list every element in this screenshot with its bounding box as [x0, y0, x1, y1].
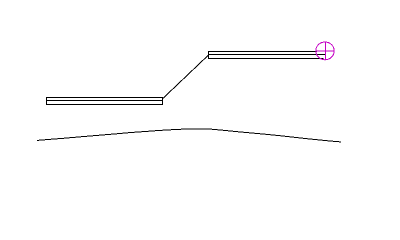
- lower beam (double-line bar): [46, 97, 163, 105]
- node marker: cross vertical: [324, 41, 326, 60]
- node marker: magenta circle: [316, 42, 334, 60]
- upper beam (double-line bar): [208, 51, 326, 59]
- ground surface polyline: [37, 129, 341, 142]
- wire: lower bar left edge: [46, 97, 48, 105]
- wire: lower bar bottom line: [46, 104, 163, 106]
- wire: lower bar top line: [46, 97, 163, 99]
- wire: diagonal connector between bars: [163, 55, 209, 98]
- wire: lower bar inner line: [46, 100, 163, 102]
- wire: upper bar top line: [208, 51, 317, 53]
- wire: lower bar right edge: [162, 97, 164, 105]
- wire: upper bar left edge: [208, 51, 210, 59]
- wire: upper bar bottom line: [208, 58, 324, 60]
- node marker: cross horizontal: [316, 50, 335, 52]
- wire: upper bar inner line: [208, 54, 326, 56]
